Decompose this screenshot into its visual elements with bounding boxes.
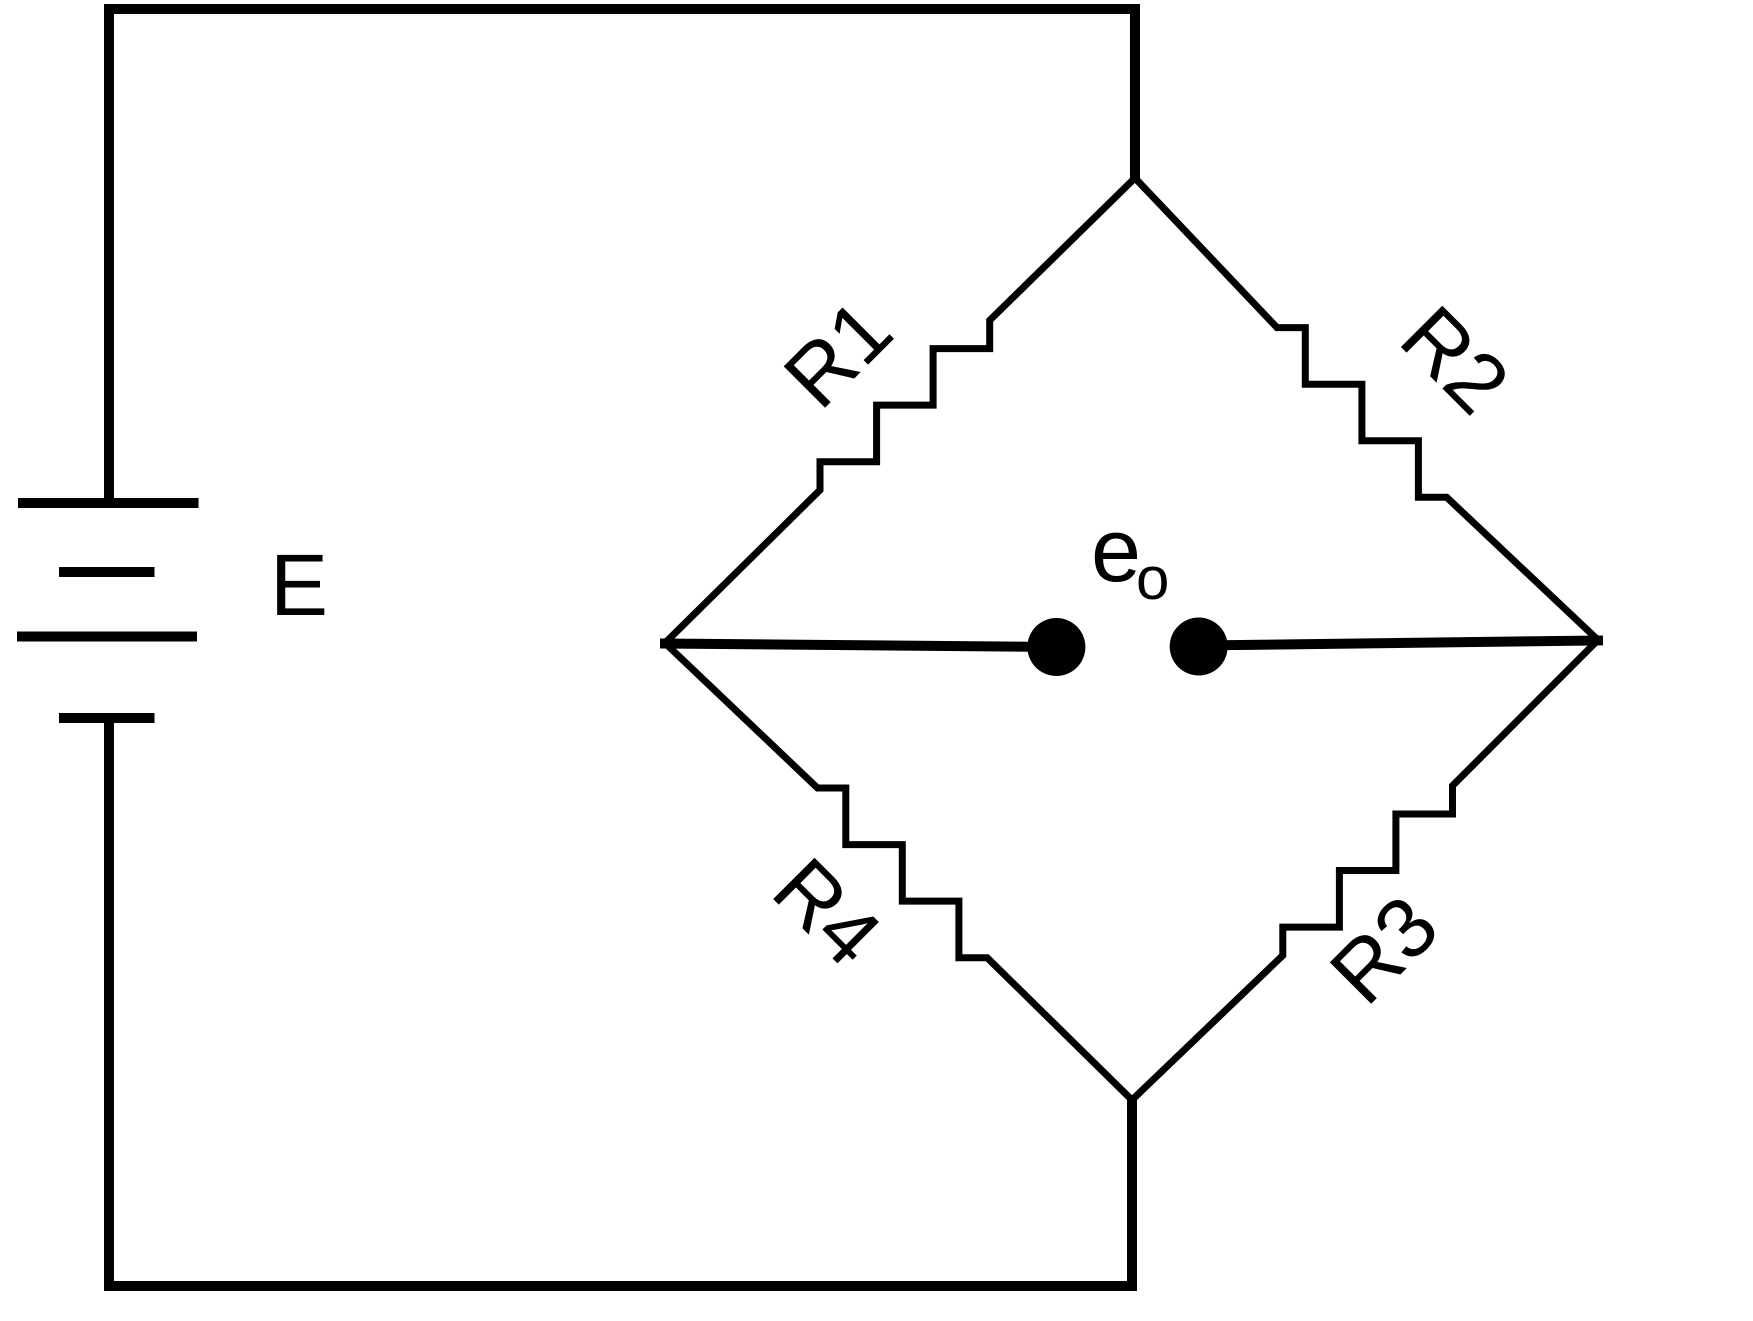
resistor R3 (bridge arm bottom node to right node) [1132, 640, 1598, 1100]
battery E plate 4 short (bottom) [59, 713, 155, 723]
wire drop from top rail to bridge top node [1130, 9, 1140, 178]
battery E plate 3 long [17, 632, 197, 642]
resistor R4 (bridge arm left node to bottom node) [665, 643, 1132, 1100]
svg-text:R3: R3 [1312, 878, 1456, 1022]
resistor R1 (bridge arm left node to top node) [665, 178, 1135, 643]
wire eo right terminal to bridge right node [1199, 641, 1598, 646]
svg-text:R4: R4 [755, 840, 899, 984]
svg-text:o: o [1136, 545, 1169, 612]
wire from battery - down to bottom-left corner [104, 718, 114, 1286]
battery E plate 1 long (top) [18, 498, 199, 508]
wire riser from bottom rail to bridge bottom node [1127, 1100, 1137, 1286]
wire left vertical from battery + to top-left corner [104, 9, 114, 503]
wire top rail [109, 4, 1135, 14]
svg-text:R2: R2 [1383, 288, 1527, 432]
svg-text:e: e [1091, 501, 1141, 601]
battery E plate 2 short [59, 567, 155, 577]
svg-text:E: E [270, 537, 328, 634]
node eo right terminal dot [1170, 618, 1228, 676]
resistor R2 (bridge arm top node to right node) [1135, 178, 1598, 640]
node eo left terminal dot [1027, 618, 1085, 676]
wire bottom rail [109, 1281, 1132, 1291]
wire bridge left node to eo left terminal [665, 644, 1056, 648]
